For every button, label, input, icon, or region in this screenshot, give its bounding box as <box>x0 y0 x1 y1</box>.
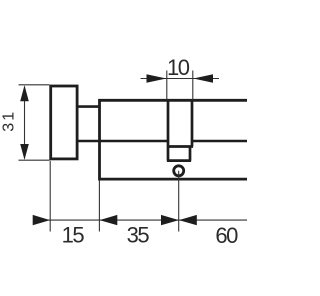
knob neck top line <box>76 105 100 108</box>
cam housing lower rect <box>167 147 191 161</box>
thumbturn knob <box>51 86 77 159</box>
dim 10 line <box>141 78 220 80</box>
dim 10 arrow left (points right) <box>147 74 167 83</box>
screw centre line <box>178 171 180 232</box>
svg-text:15: 15 <box>62 223 85 248</box>
cam housing upper rect <box>167 101 193 147</box>
dim 31 extension line top <box>19 84 50 86</box>
arrow at 15 right (points left) <box>100 215 118 225</box>
svg-text:60: 60 <box>215 223 238 248</box>
fixing screw circle <box>174 166 184 176</box>
extension line below knob <box>49 161 51 232</box>
dim 10 extension line left <box>166 71 168 100</box>
dim 31 line <box>24 87 26 159</box>
cylinder body outline <box>100 100 249 179</box>
svg-text:31: 31 <box>0 110 17 132</box>
svg-text:10: 10 <box>167 55 190 80</box>
svg-text:35: 35 <box>127 223 150 248</box>
body mid line left of cam <box>76 140 169 143</box>
dim 10 extension line right <box>192 71 194 100</box>
dim 31 extension line bottom <box>19 159 50 161</box>
extension line below body left edge <box>98 181 100 232</box>
dim 10 arrow right (points left) <box>193 74 213 83</box>
bowtie arrow right (points left) <box>179 215 197 225</box>
dim 31 arrow up <box>20 85 29 101</box>
arrow at 15 left (points right) <box>33 215 50 225</box>
bottom dimension line <box>34 219 248 221</box>
bowtie arrow left (points right) <box>161 215 179 225</box>
dim 31 arrow down <box>20 144 29 160</box>
body mid line right of cam <box>191 140 248 143</box>
